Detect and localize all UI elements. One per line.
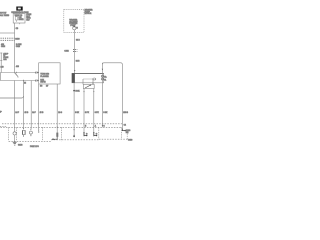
svg-text:B8: B8: [40, 85, 42, 87]
wire park branch: [30, 81, 32, 129]
wire switch feed horizontal: [0, 72, 38, 74]
wire main right vertical: [101, 63, 103, 128]
lamp L1 stem: [14, 135, 16, 142]
relay pin tick bottom: [19, 23, 21, 24]
svg-text:SW IN: SW IN: [40, 81, 46, 83]
dashed separator A: [2, 123, 123, 125]
motor right terminal: [101, 75, 103, 77]
wire fuse down: [0, 61, 2, 73]
foot x84: [84, 133, 86, 136]
dashed right stub: [126, 134, 128, 140]
wire module left drop: [38, 84, 40, 130]
wire washer drop: [74, 32, 76, 73]
svg-text:M+: M+: [104, 77, 107, 79]
svg-text:S341: S341: [75, 91, 79, 93]
motor inner wire: [83, 78, 93, 80]
svg-text:C4: C4: [124, 124, 126, 126]
fuse F2 left edge: [0, 53, 2, 61]
washer pump symbol: [73, 27, 76, 30]
relay U1 box: [13, 14, 25, 23]
comp on 57 line: [56, 133, 58, 137]
svg-text:ORN: ORN: [16, 46, 21, 48]
splice wire: [73, 83, 75, 135]
node pivot tick: [15, 72, 17, 74]
arrow a6: [30, 129, 31, 131]
arrow a0 washer wire: [74, 70, 75, 72]
wire branch to left edge: [0, 32, 15, 34]
comp bulb2 stem: [23, 135, 25, 136]
wire top loop horizontal: [102, 63, 122, 65]
arrow a8: [57, 127, 58, 129]
fuse MAXIFUSE (black): [16, 7, 22, 11]
lamp L3: [29, 131, 32, 134]
connector C100 dashed pair: [1, 37, 15, 39]
motor block big rect: [72, 73, 104, 82]
lamp L1: [13, 132, 16, 135]
svg-text:PARK LPS: PARK LPS: [30, 145, 39, 148]
dashed vertical v4: [61, 127, 63, 141]
svg-text:ORN: ORN: [1, 46, 6, 48]
dashed vertical v2: [121, 127, 123, 139]
pin glyph upper: [37, 72, 39, 74]
switch S1 blade: [15, 73, 18, 77]
arrow a2: [93, 91, 94, 92]
svg-text:FLASHER: FLASHER: [40, 75, 49, 78]
wire to left edge: [0, 96, 24, 98]
relay U1 coil symbol: [15, 17, 17, 20]
node pin mark upper: [34, 72, 36, 74]
svg-text:24 G: 24 G: [58, 112, 62, 114]
dashed vertical v1: [16, 127, 18, 141]
wire turn branch: [23, 81, 25, 129]
svg-text:C100: C100: [15, 38, 19, 40]
arrow a5: [23, 128, 24, 130]
arrow a9 x102: [102, 125, 103, 127]
node pin mark lower: [34, 80, 36, 82]
svg-text:G103: G103: [18, 145, 22, 147]
svg-text:15: 15: [24, 83, 26, 85]
svg-text:C400: C400: [128, 140, 132, 142]
foot x122 ground: [122, 129, 125, 131]
dashed left stub: [0, 125, 7, 127]
comp bulb2: [22, 130, 25, 134]
lamp L3 stem: [30, 134, 32, 136]
svg-text:BRKR: BRKR: [19, 19, 25, 21]
motor top edge dark: [72, 72, 104, 74]
node switch box left edge: [0, 73, 1, 81]
svg-text:MOTOR: MOTOR: [85, 13, 92, 15]
switch sub box: [83, 84, 94, 88]
dashed vertical v0: [8, 127, 10, 141]
dashed separator B: [1, 126, 122, 128]
foot left hook: [54, 137, 58, 139]
foot x93.8: [94, 133, 96, 136]
dashed bottom C: [9, 140, 51, 142]
wire module right drop: [56, 84, 58, 139]
wire fuse to relay: [19, 11, 21, 14]
svg-text:416: 416: [16, 66, 19, 68]
teardrop end x74: [73, 134, 75, 136]
ground G1: [13, 141, 17, 143]
svg-text:ALL TIMES: ALL TIMES: [0, 14, 10, 17]
motor inner oval connector: [93, 78, 96, 80]
wire lamp drop: [13, 81, 15, 132]
dashed vertical v3: [42, 127, 44, 141]
wire switch out horizontal: [0, 80, 38, 82]
sub box links: [82, 79, 84, 84]
wire sub left drop: [83, 89, 85, 137]
pin glyph lower: [37, 80, 39, 82]
arrow a3: [102, 69, 103, 71]
svg-text:150 B: 150 B: [123, 112, 128, 114]
svg-text:C202: C202: [64, 51, 68, 53]
motor dark bar: [72, 73, 75, 82]
arrow a1: [83, 91, 84, 92]
switch blade inside: [85, 85, 90, 88]
module M1 big box: [39, 63, 60, 84]
wire sub right drop: [93, 89, 95, 137]
svg-text:D7: D7: [46, 85, 48, 87]
arrow a7 + dot: [38, 130, 39, 132]
splice dot: [73, 90, 75, 92]
arrow a4: [74, 129, 75, 131]
wire main drop from relay: [14, 23, 16, 73]
washer dashed box: [64, 9, 84, 32]
pin tick branch: [23, 80, 25, 82]
wire right vertical: [121, 64, 123, 130]
dashed vertical v5: [98, 127, 100, 139]
